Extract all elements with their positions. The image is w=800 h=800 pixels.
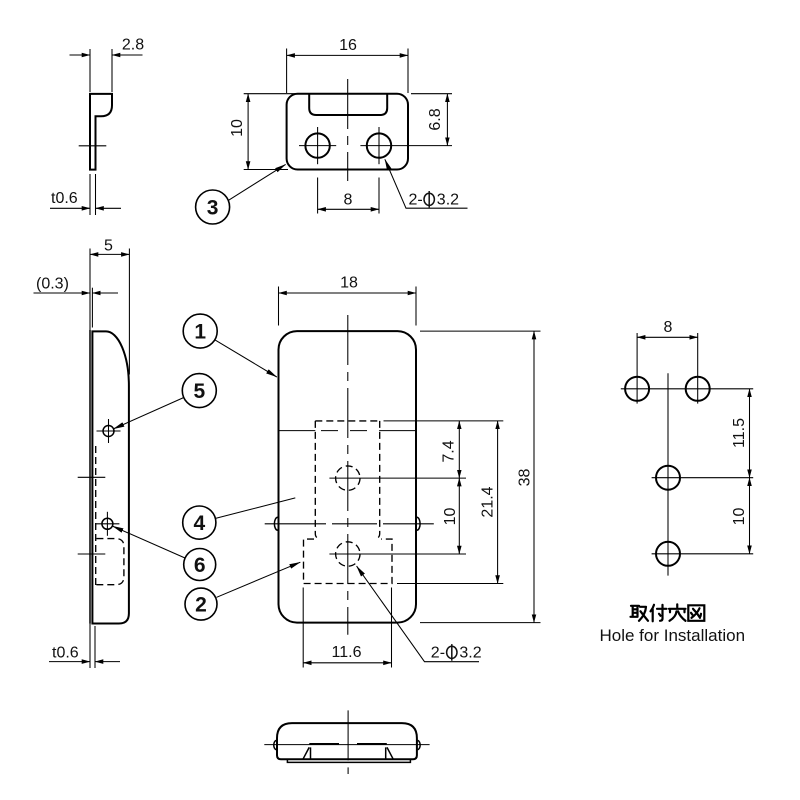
upper hole crosshair / extension: [329, 477, 466, 479]
dim 8 extension lines: [317, 178, 319, 214]
dome outline: [277, 723, 417, 759]
hole bottom: [656, 542, 680, 566]
svg-text:18: 18: [340, 274, 358, 291]
label 2-phi3.2 leader: [357, 566, 479, 662]
lower hole level centerline: [78, 553, 106, 555]
caption kanji 取付穴図 (drawn strokes): [631, 604, 705, 621]
left bump: [274, 740, 277, 749]
dim t0.6 extension lines: [89, 174, 91, 215]
svg-text:2-: 2-: [431, 645, 445, 662]
dim t0.6 arrows: [49, 661, 90, 663]
recess slot: [309, 94, 387, 115]
svg-text:38: 38: [517, 469, 534, 487]
svg-text:6.8: 6.8: [427, 108, 444, 130]
balloon 2 leader: [217, 562, 301, 597]
dim (0.3) arrows: [34, 292, 91, 294]
dim 11.5 line: [749, 389, 751, 478]
left latch bump: [274, 517, 277, 530]
hole top-left: [625, 377, 649, 401]
balloon 1 leader: [215, 340, 277, 377]
svg-text:5: 5: [104, 237, 113, 254]
inner recess edge left: [309, 743, 339, 745]
view B: striker plate top view (top-middle): [196, 37, 468, 224]
svg-text:7.4: 7.4: [441, 440, 458, 462]
column centerline vertical: [667, 373, 669, 575]
balloon 6 circle: [184, 549, 216, 581]
svg-text:8: 8: [664, 319, 673, 336]
svg-text:10: 10: [229, 119, 246, 137]
kanji 取: [631, 606, 649, 621]
balloon 4 circle: [183, 506, 216, 539]
balloon 3 leader: [228, 164, 285, 200]
dim 11.6 line: [303, 662, 391, 664]
cavity top extension line: [384, 420, 504, 422]
svg-text:4: 4: [193, 512, 205, 535]
svg-text:t0.6: t0.6: [52, 645, 79, 662]
kanji 付: [651, 605, 667, 622]
svg-text:21.4: 21.4: [480, 486, 497, 517]
hidden cavity top edge: [315, 420, 379, 422]
balloon 3 circle: [196, 190, 230, 224]
dim 16 line: [287, 54, 408, 56]
dim 18 extension lines: [278, 287, 280, 326]
dimple 5 crosshair: [97, 430, 121, 432]
inner recess edge right: [357, 743, 387, 745]
hole left: [305, 133, 329, 157]
dim 18 line: [279, 292, 417, 294]
middle hole crosshair horizontal: [652, 477, 754, 479]
plate bottom extension line: [420, 622, 541, 624]
svg-text:8: 8: [344, 191, 353, 208]
lower hole crosshair / extension: [329, 553, 466, 555]
dimple 6 crosshair: [95, 523, 119, 525]
svg-text:Hole for Installation: Hole for Installation: [600, 626, 746, 645]
view F: hole installation layout (right): [600, 319, 754, 645]
dim 6.8 line: [446, 94, 448, 146]
plate outline: [287, 94, 408, 170]
balloon 5 circle: [182, 374, 216, 408]
svg-text:10: 10: [442, 508, 459, 526]
balloon 1 circle: [183, 314, 217, 348]
hidden lower hole: [336, 542, 360, 566]
svg-text:2.8: 2.8: [122, 37, 144, 54]
dim t0.6 right extension: [94, 626, 96, 668]
hidden plate front edge: [95, 446, 97, 585]
step line across body: [279, 430, 316, 432]
side dimple 5: [103, 426, 114, 437]
right spring leg: [386, 747, 394, 759]
body outline: [92, 331, 128, 623]
hidden lower recess box: [96, 539, 124, 585]
svg-text:t0.6: t0.6: [51, 190, 78, 207]
label 2-phi3.2 leader: [385, 159, 468, 208]
svg-text:3: 3: [207, 197, 219, 220]
hidden cavity left edge: [315, 421, 320, 539]
kanji 図: [688, 605, 704, 621]
dim 8 line: [318, 208, 379, 210]
dim 2.8 arrows: [70, 54, 91, 56]
upper hole level centerline: [78, 476, 106, 478]
dim 11.6 extension lines: [302, 588, 304, 668]
bump level centerline: [265, 523, 326, 525]
svg-text:1: 1: [194, 321, 206, 344]
dim t0.6 arrows: [50, 207, 90, 209]
view D: body front view (center): [265, 274, 541, 667]
svg-text:3.2: 3.2: [459, 645, 481, 662]
balloon 5 leader: [113, 398, 183, 429]
box bottom extension line: [397, 583, 503, 585]
striker centerline: [79, 145, 107, 147]
dim 21.4 line: [497, 421, 499, 584]
view C: body side view (middle-left): [34, 237, 301, 668]
left spring leg: [303, 747, 311, 759]
right latch bump: [417, 517, 420, 530]
view A: striker plate side profile (top-left): [50, 37, 144, 216]
hidden lower box: [304, 539, 393, 583]
dim 6.8 extension line top: [411, 93, 452, 95]
dim 7.4 line: [458, 421, 460, 478]
vertical centerline: [347, 710, 349, 774]
svg-text:10: 10: [731, 508, 748, 526]
svg-text:2-: 2-: [409, 192, 423, 209]
svg-text:5: 5: [193, 380, 205, 403]
svg-text:(0.3): (0.3): [36, 276, 69, 293]
right bump: [418, 740, 421, 749]
bottom hole crosshair horizontal: [652, 553, 754, 555]
plate top extension line: [420, 330, 541, 332]
dim (0.3) extension line: [91, 288, 93, 328]
base plate back edge: [89, 249, 91, 331]
side dimple 6: [102, 518, 113, 529]
hidden upper hole: [336, 466, 360, 490]
svg-text:2: 2: [195, 594, 207, 617]
svg-text:11.6: 11.6: [332, 644, 362, 661]
balloon 6 leader: [113, 526, 186, 558]
vertical centerline: [347, 315, 349, 635]
striker plate outline: [90, 94, 112, 170]
base plate lip: [287, 759, 410, 762]
dim 10 line: [247, 94, 249, 170]
hole top-right: [686, 377, 710, 401]
dim 5 line: [90, 253, 129, 255]
view E: body bottom view (bottom-center): [264, 710, 429, 774]
balloon 2 circle: [185, 588, 217, 620]
dim 8 line: [637, 336, 698, 338]
svg-text:11.5: 11.5: [731, 418, 748, 448]
svg-text:3.2: 3.2: [437, 192, 459, 209]
vertical centerline: [347, 79, 349, 181]
hole middle: [656, 466, 680, 490]
body outline: [279, 331, 417, 622]
dim 10 extension lines: [244, 93, 297, 95]
hole crosshair verticals: [317, 127, 319, 164]
svg-text:6: 6: [194, 554, 206, 577]
kanji 穴: [669, 604, 686, 621]
hole right: [367, 133, 391, 157]
balloon 4 leader: [216, 498, 296, 519]
dim 10 line: [458, 478, 460, 554]
dim 2.8 extension lines: [89, 49, 91, 92]
dim 10 line: [749, 478, 751, 554]
svg-text:16: 16: [339, 37, 357, 54]
horizontal centerline: [264, 744, 429, 746]
dim 38 line: [533, 331, 535, 622]
dim 8 extension lines: [636, 333, 638, 404]
top row crosshair horizontal: [621, 388, 753, 390]
hidden cavity right edge: [375, 421, 380, 539]
hole crosshair horizontals: [299, 145, 336, 147]
dim 16 extension lines: [286, 49, 288, 94]
dim 5 extension right: [128, 249, 130, 375]
